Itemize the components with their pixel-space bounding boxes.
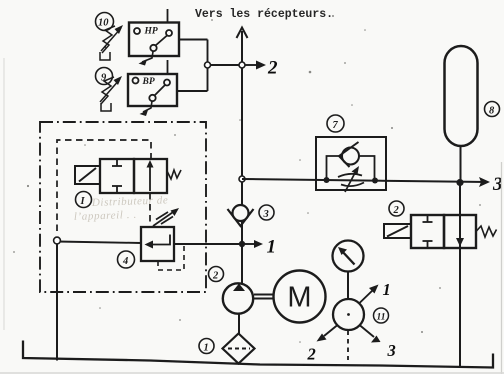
pencil note line 2	[74, 209, 137, 223]
svg-text:2: 2	[212, 271, 219, 282]
valve I right position flow arrow up	[147, 160, 154, 191]
pressure switch 9 label BP	[142, 77, 155, 87]
svg-text:2: 2	[307, 345, 316, 364]
selector dashed drain to tank	[347, 331, 349, 361]
svg-text:1: 1	[204, 343, 209, 354]
enclosure inner dashed box	[57, 140, 151, 231]
component number 4 (circled)	[118, 251, 135, 268]
junction node arrow 1	[239, 241, 245, 247]
svg-text:2: 2	[393, 205, 400, 216]
svg-text:M: M	[287, 282, 311, 314]
svg-text:Vers les récepteurs.: Vers les récepteurs.	[195, 8, 333, 21]
valve 2 solenoid	[384, 224, 411, 238]
component number 2 valve (circled)	[389, 201, 404, 216]
relief valve 4 dashed drain loop	[158, 246, 184, 270]
directional valve 2 body	[411, 215, 476, 248]
component number I (circled)	[76, 192, 92, 208]
valve I solenoid	[75, 166, 100, 184]
wire: pump to filter	[238, 314, 240, 335]
pressure switch 10 adjustable spring	[101, 25, 123, 53]
selector arrow to 2	[307, 325, 338, 364]
enclosure dash-dot box (machine boundary)	[40, 122, 206, 292]
junction node on main line at arrow 2	[239, 62, 245, 68]
pressure switch 9 (BP) : box	[128, 74, 177, 106]
motor M	[274, 271, 326, 323]
flow regulator 7 throttle arcs	[338, 174, 364, 186]
page fold line left	[3, 58, 5, 330]
svg-text:BP: BP	[142, 77, 155, 87]
page edge line right	[501, 162, 503, 374]
wire: pressure switches to main line	[208, 64, 243, 66]
relief valve 4 adjustable spring arrow	[153, 208, 179, 226]
selector distributor 11	[333, 299, 364, 330]
wire: BP box to junction column	[177, 90, 208, 92]
selector arrow to 3	[360, 325, 396, 360]
component number 10 (circled)	[96, 13, 114, 31]
wire: accumulator stem	[460, 146, 462, 182]
component number 8 (circled)	[485, 102, 500, 117]
component number 2 pump (circled)	[209, 267, 224, 282]
node label: Vers les récepteurs	[195, 8, 333, 21]
pressure switch 9 drain bracket	[101, 103, 111, 111]
filter 1	[223, 334, 255, 364]
check valve 3 on main line	[228, 205, 254, 226]
wire: left return to relief valve 4	[57, 242, 141, 244]
arrow to line 3 (right edge)	[479, 177, 490, 187]
junction node (switch column)	[205, 62, 211, 68]
valve 2 return spring	[476, 226, 497, 237]
label 2 (top)	[267, 58, 278, 79]
junction nodes in regulator 7	[324, 177, 379, 184]
wire: relief valve 4 to main line	[174, 243, 242, 245]
pressure switch 10 label HP	[144, 27, 158, 37]
svg-text:3: 3	[263, 209, 269, 220]
pressure switch 9 actuator arrow below box	[140, 101, 153, 116]
svg-text:8: 8	[489, 106, 495, 117]
label 3 (right edge)	[492, 174, 503, 195]
pressure switch 10 top stub wire	[167, 9, 169, 23]
valve 2 right position flow arrow down	[456, 238, 464, 247]
valve I return spring	[167, 170, 181, 179]
svg-text:l’appareil . .: l’appareil . .	[74, 209, 137, 223]
svg-text:3: 3	[387, 341, 396, 360]
pressure switch 10 contacts	[134, 28, 172, 51]
svg-text:7: 7	[333, 120, 339, 131]
wire: main pressure vertical line from pump to top arrow	[241, 31, 243, 284]
wire: left return line down to tank	[56, 244, 58, 361]
svg-text:10: 10	[98, 18, 109, 29]
pilot dashed line valve I to relief valve 4	[149, 193, 151, 227]
pressure switch 9 contacts	[133, 78, 171, 102]
page edge line bottom	[0, 372, 504, 374]
pressure switch 9 top stub wire	[167, 60, 169, 74]
junction node left return	[54, 237, 61, 244]
directional valve I body	[100, 159, 167, 193]
pressure switch 10 actuator arrow below box	[139, 52, 154, 66]
svg-text:Distributeur de: Distributeur de	[91, 194, 169, 209]
pressure gauge	[333, 241, 364, 272]
pump 2	[223, 283, 253, 313]
pencil note line 1	[91, 194, 169, 209]
label 1 (mid)	[267, 237, 277, 258]
pressure switch 9 adjustable spring	[100, 76, 122, 104]
selector arrow to 1	[359, 280, 391, 304]
flow regulator 7 adjust arrow	[345, 166, 359, 192]
component number 11 (circled)	[374, 308, 389, 323]
accumulator 8	[445, 46, 478, 146]
svg-text:HP: HP	[144, 27, 158, 37]
relief valve 4 body	[141, 227, 174, 261]
svg-text:11: 11	[377, 313, 386, 323]
flow regulator 7 check ball	[339, 142, 359, 167]
flow regulator 7 bypass loop	[327, 156, 375, 180]
svg-text:2: 2	[267, 58, 278, 79]
svg-text:1: 1	[267, 237, 277, 258]
relief valve 4 internal flow arrow	[145, 235, 171, 249]
wire: vertical joining HP and BP outputs	[207, 40, 209, 92]
wire: line to receivers arrow (top), node "Vers les récepteurs"	[237, 28, 248, 39]
svg-text:4: 4	[122, 256, 128, 267]
wire: line 3 horizontal	[242, 179, 487, 182]
component number 3 (circled)	[259, 205, 274, 220]
valve 2 left position blocked ports	[423, 216, 433, 247]
svg-text:1: 1	[383, 280, 391, 299]
svg-text:I: I	[80, 196, 86, 207]
component number 9 (circled)	[96, 68, 113, 85]
wire: gauge stem	[347, 272, 349, 300]
arrow to line 2	[245, 61, 266, 70]
arrow to line 1	[245, 240, 263, 248]
pressure switch 10 drain bracket	[100, 47, 110, 60]
pressure switch 10 (HP) : box	[129, 23, 179, 57]
component number 7 (circled)	[327, 115, 344, 132]
wire: HP box to junction column	[179, 39, 208, 41]
valve I left position blocked ports	[112, 160, 122, 192]
component number 1 filter (circled)	[199, 339, 214, 354]
shaft coupling pump-motor	[254, 295, 274, 299]
junction node line 3 branch	[239, 176, 245, 182]
svg-text:9: 9	[101, 73, 107, 84]
wire: accumulator line down through valve 2 to tank	[459, 183, 461, 367]
flow regulator 7 outer box	[316, 137, 386, 190]
tank return line (bottom)	[23, 341, 493, 368]
junction node accumulator / line 3	[456, 179, 463, 186]
